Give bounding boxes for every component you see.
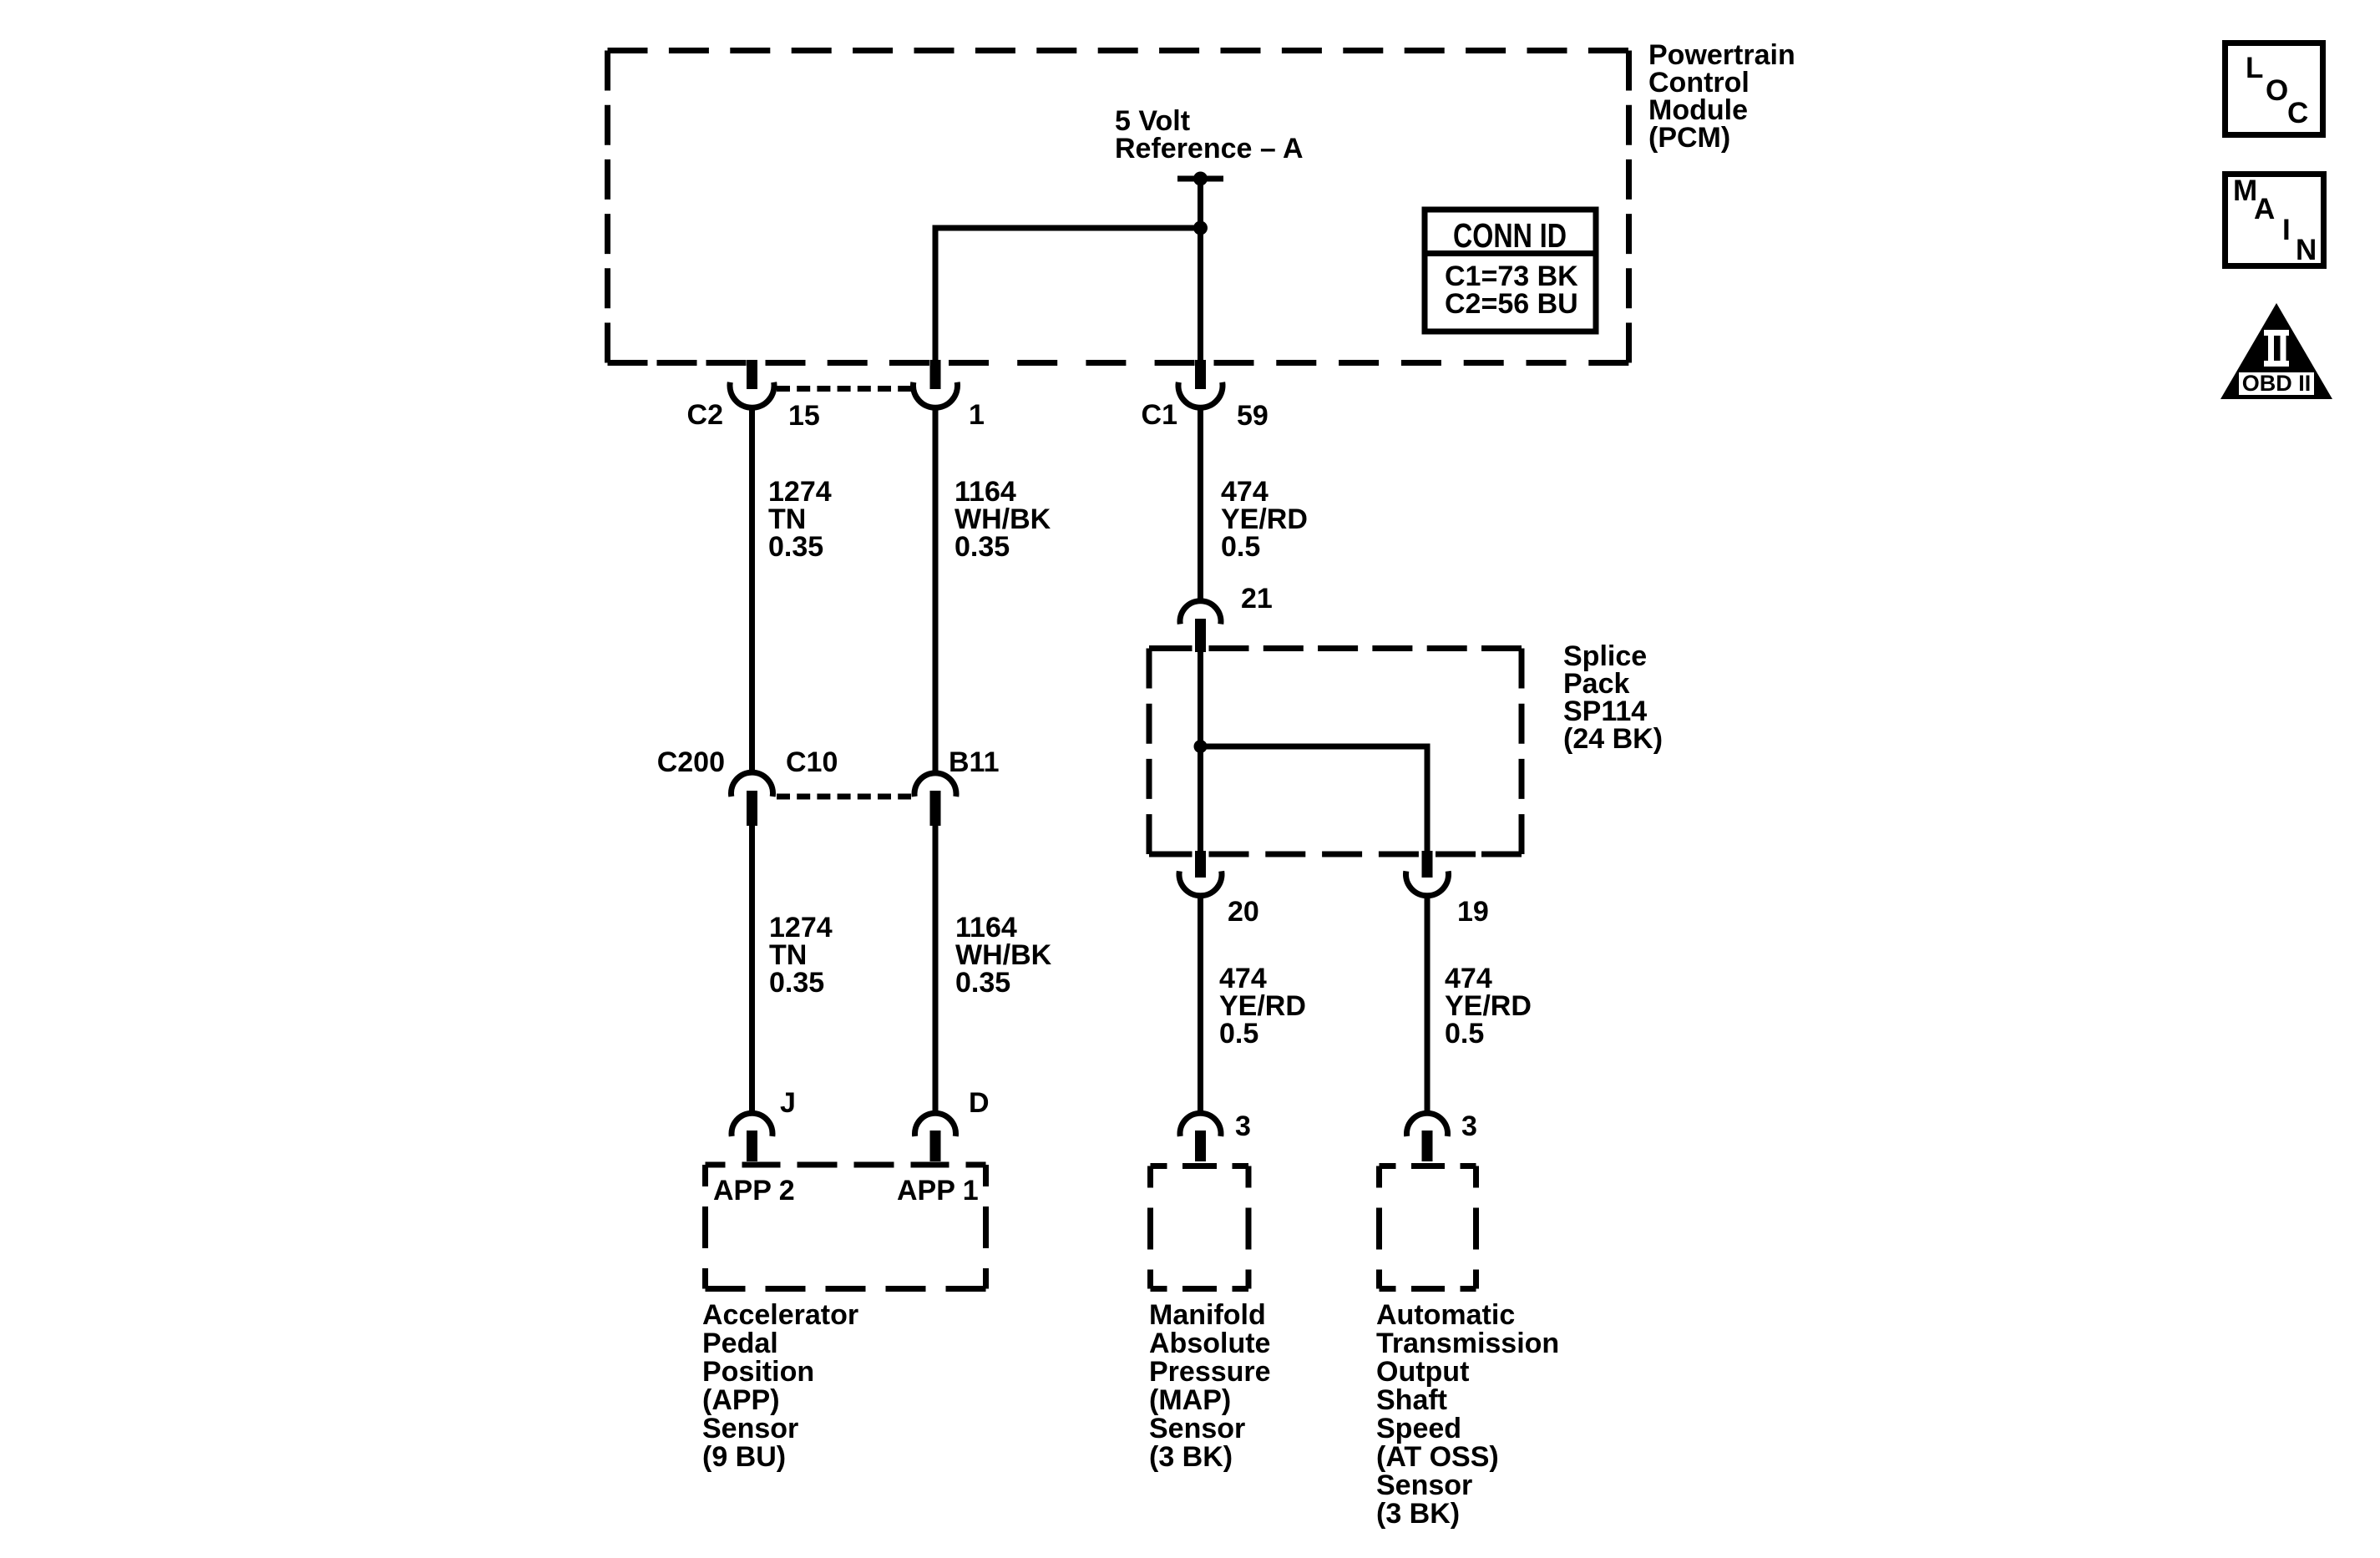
wire label: 1274 TN 0.35 (lower)	[769, 912, 833, 999]
svg-text:L: L	[2246, 52, 2263, 84]
svg-text:(PCM): (PCM)	[1648, 122, 1730, 154]
legend icon: OBD II triangle	[2220, 303, 2332, 399]
wire: horizontal branch from junction to pin 1 drop	[935, 225, 1201, 231]
svg-text:Sensor: Sensor	[1376, 1469, 1472, 1501]
svg-text:(24 BK): (24 BK)	[1563, 723, 1663, 755]
svg-text:21: 21	[1241, 583, 1273, 615]
splice pack SP114 box, dashed outline	[1149, 649, 1522, 855]
svg-text:Absolute: Absolute	[1149, 1328, 1270, 1359]
label: Splice Pack SP114 (24 BK)	[1563, 640, 1663, 755]
wire label: 474 YE/RD 0.5	[1221, 476, 1308, 563]
component box: Manifold Absolute Pressure (MAP) Sensor, dashed	[1151, 1166, 1249, 1289]
svg-text:Sensor: Sensor	[702, 1413, 798, 1444]
wire label: 1164 WH/BK 0.35 (lower)	[955, 912, 1052, 999]
svg-text:C: C	[2287, 97, 2308, 129]
svg-text:0.35: 0.35	[768, 531, 823, 563]
wire label: 474 YE/RD 0.5 (to MAP)	[1219, 963, 1306, 1050]
wire: circuit 1164 WH/BK from PCM pin 1 to C200 B11	[933, 407, 939, 773]
wire: vertical drop to PCM pin 1	[933, 225, 939, 363]
svg-text:C10: C10	[786, 746, 838, 778]
connector: splice pack SP114 pin 21	[1180, 601, 1221, 652]
svg-text:Manifold: Manifold	[1149, 1299, 1266, 1331]
svg-text:Automatic: Automatic	[1376, 1299, 1515, 1331]
connector: PCM C2 pin 15	[730, 360, 774, 407]
svg-text:3: 3	[1461, 1110, 1477, 1142]
svg-text:C2=56 BU: C2=56 BU	[1445, 288, 1578, 320]
svg-text:J: J	[780, 1087, 796, 1119]
connector: splice pack pin 20	[1179, 851, 1222, 896]
connector: APP sensor pin J	[732, 1113, 772, 1161]
svg-text:A: A	[2254, 193, 2275, 225]
svg-text:Reference – A: Reference – A	[1115, 133, 1304, 164]
svg-text:C2: C2	[687, 399, 723, 431]
label: Automatic Transmission Output Shaft Speed (AT OSS) Sensor (3 BK)	[1376, 1299, 1559, 1530]
svg-text:Accelerator: Accelerator	[702, 1299, 858, 1331]
junction dot inside splice pack	[1194, 740, 1208, 753]
svg-text:APP 2: APP 2	[713, 1175, 795, 1206]
svg-text:Speed: Speed	[1376, 1413, 1461, 1444]
junction dot where branch to pin 1 splits	[1193, 221, 1208, 235]
connector: PCM C1 pin 59	[1178, 360, 1223, 407]
wire label: 474 YE/RD 0.5 (to AT OSS)	[1445, 963, 1532, 1050]
component box: AT Output Shaft Speed Sensor, dashed	[1380, 1166, 1476, 1289]
svg-text:1: 1	[969, 399, 985, 431]
wire: 474 YE/RD from pin 20 to MAP sensor pin 3	[1198, 895, 1203, 1114]
CONN ID table	[1425, 210, 1596, 331]
svg-text:C1: C1	[1142, 399, 1177, 431]
wire label: 1164 WH/BK 0.35	[955, 476, 1051, 563]
component box: Accelerator Pedal Position (APP) Sensor, dashed	[706, 1165, 986, 1289]
net label: 5 Volt Reference - A	[1115, 105, 1304, 164]
wire: 5V trunk from junction down to PCM pin 59	[1198, 228, 1203, 362]
connector: splice pack pin 19	[1406, 851, 1449, 896]
net tick: 5 Volt Reference A terminal	[1177, 176, 1223, 182]
svg-text:Pressure: Pressure	[1149, 1356, 1271, 1388]
svg-text:0.35: 0.35	[769, 967, 824, 999]
svg-text:0.5: 0.5	[1219, 1018, 1258, 1050]
svg-text:(9 BU): (9 BU)	[702, 1441, 786, 1473]
wire label: 1274 TN 0.35	[768, 476, 832, 563]
connector: PCM pin 1	[914, 360, 958, 407]
svg-text:OBD II: OBD II	[2242, 371, 2312, 396]
legend icon: MAIN box	[2226, 175, 2324, 267]
label: Manifold Absolute Pressure (MAP) Sensor (3 BK)	[1149, 1299, 1271, 1473]
svg-text:Output: Output	[1376, 1356, 1469, 1388]
svg-text:B11: B11	[949, 746, 1000, 778]
svg-text:15: 15	[788, 400, 820, 432]
legend icon: LOC box	[2226, 43, 2323, 135]
wire: 474 YE/RD from pin 19 to AT OSS sensor pin 3	[1425, 895, 1431, 1114]
svg-text:C200: C200	[657, 746, 725, 778]
svg-text:Position: Position	[702, 1356, 814, 1388]
svg-text:Sensor: Sensor	[1149, 1413, 1245, 1444]
svg-text:I: I	[2282, 214, 2291, 246]
label: Powertrain Control Module (PCM)	[1648, 39, 1795, 154]
svg-text:0.5: 0.5	[1445, 1018, 1484, 1050]
svg-text:0.35: 0.35	[955, 531, 1010, 563]
svg-text:N: N	[2296, 234, 2317, 266]
wire: splice branch drop to pin 19	[1425, 744, 1431, 855]
svg-text:Pedal: Pedal	[702, 1328, 778, 1359]
connector tie line (dashed) between pin 15 and pin 1	[777, 386, 911, 392]
connector: C200 cavity C10	[731, 772, 772, 826]
connector: APP sensor pin D	[915, 1113, 956, 1161]
wire: splice branch horizontal to pin 19	[1201, 744, 1428, 750]
wire: 1274 TN lower segment C200 C10 to APP sensor pin J	[749, 825, 755, 1114]
svg-text:Shaft: Shaft	[1376, 1384, 1447, 1416]
connector: C200 cavity B11	[914, 773, 956, 826]
svg-text:0.35: 0.35	[955, 967, 1010, 999]
svg-text:0.5: 0.5	[1221, 531, 1260, 563]
svg-text:O: O	[2266, 74, 2288, 107]
svg-text:19: 19	[1457, 896, 1489, 928]
connector: AT OSS sensor pin 3	[1406, 1113, 1447, 1161]
svg-text:Transmission: Transmission	[1376, 1328, 1559, 1359]
wire: circuit 1274 TN from PCM pin 15 to C200 C10	[749, 407, 755, 773]
wire: circuit 474 YE/RD from PCM pin 59 to splice pack pin 21	[1198, 407, 1203, 601]
svg-text:(3 BK): (3 BK)	[1149, 1441, 1233, 1473]
svg-text:APP 1: APP 1	[897, 1175, 979, 1206]
svg-text:D: D	[969, 1087, 990, 1119]
svg-text:(MAP): (MAP)	[1149, 1384, 1231, 1416]
svg-text:20: 20	[1228, 896, 1259, 928]
module box: Powertrain Control Module (PCM), dashed outline	[608, 51, 1629, 363]
svg-text:CONN ID: CONN ID	[1453, 216, 1567, 255]
junction dot at 5 Volt Reference terminal	[1193, 172, 1208, 186]
svg-text:(APP): (APP)	[702, 1384, 780, 1416]
label: Accelerator Pedal Position (APP) Sensor (9 BU)	[702, 1299, 858, 1473]
svg-text:(3 BK): (3 BK)	[1376, 1498, 1460, 1530]
wire: 5V reference trunk from tick down to branch junction	[1198, 179, 1203, 228]
connector: MAP sensor pin 3	[1180, 1113, 1221, 1161]
svg-text:(AT OSS): (AT OSS)	[1376, 1441, 1499, 1473]
svg-text:59: 59	[1237, 400, 1268, 432]
connector tie line (dashed) between C10 and B11	[777, 794, 911, 800]
svg-text:3: 3	[1235, 1110, 1251, 1142]
wire: 1164 WH/BK lower segment C200 B11 to APP sensor pin D	[933, 825, 939, 1114]
wire: splice trunk inside SP114	[1198, 652, 1203, 854]
